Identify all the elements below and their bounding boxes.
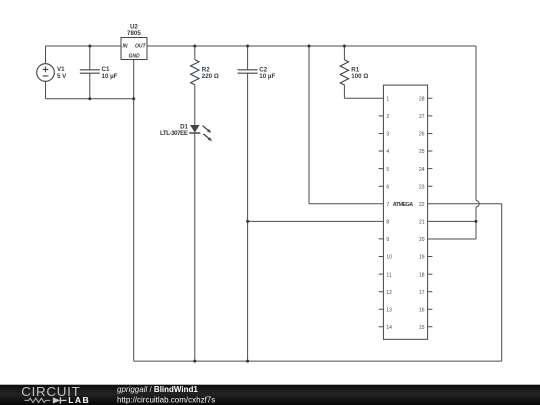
svg-text:11: 11 (386, 272, 391, 278)
svg-text:5 V: 5 V (57, 73, 67, 80)
svg-text:6: 6 (386, 184, 389, 190)
svg-text:15: 15 (419, 325, 425, 331)
svg-text:14: 14 (386, 325, 392, 331)
svg-text:12: 12 (386, 290, 392, 296)
svg-text:gpriggall / BlindWind1: gpriggall / BlindWind1 (117, 385, 198, 394)
svg-text:LTL-307EE: LTL-307EE (160, 130, 188, 137)
svg-text:IN: IN (123, 43, 128, 49)
svg-text:10: 10 (386, 255, 392, 261)
svg-text:23: 23 (419, 184, 425, 190)
svg-text:2: 2 (386, 114, 389, 120)
svg-text:26: 26 (419, 132, 425, 138)
svg-text:19: 19 (419, 255, 425, 261)
svg-text:7805: 7805 (127, 30, 141, 37)
svg-text:18: 18 (419, 272, 425, 278)
svg-text:21: 21 (419, 220, 425, 226)
svg-text:28: 28 (419, 97, 425, 103)
svg-text:100 Ω: 100 Ω (351, 73, 368, 80)
svg-text:22: 22 (419, 202, 425, 208)
svg-text:7: 7 (386, 202, 389, 208)
svg-text:13: 13 (386, 307, 392, 313)
svg-text:1: 1 (386, 97, 389, 103)
svg-text:10 µF: 10 µF (259, 73, 275, 80)
svg-text:220 Ω: 220 Ω (202, 73, 219, 80)
svg-text:24: 24 (419, 167, 425, 173)
svg-text:LAB: LAB (68, 395, 90, 405)
svg-text:GND: GND (128, 54, 140, 60)
svg-text:http://circuitlab.com/cxhzf7s: http://circuitlab.com/cxhzf7s (117, 396, 215, 405)
svg-text:25: 25 (419, 149, 425, 155)
svg-text:17: 17 (419, 290, 425, 296)
svg-text:5: 5 (386, 167, 389, 173)
svg-text:20: 20 (419, 237, 425, 243)
svg-text:8: 8 (386, 220, 389, 226)
svg-text:16: 16 (419, 307, 425, 313)
svg-text:3: 3 (386, 132, 389, 138)
svg-text:ATMEGA: ATMEGA (393, 202, 414, 208)
svg-text:4: 4 (386, 149, 389, 155)
svg-text:27: 27 (419, 114, 425, 120)
svg-text:10 µF: 10 µF (102, 73, 118, 80)
svg-text:OUT: OUT (135, 43, 147, 49)
svg-text:9: 9 (386, 237, 389, 243)
